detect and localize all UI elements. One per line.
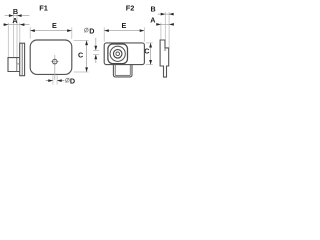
hole vertical centerline [54,55,56,80]
svg-text:E: E [122,21,127,30]
tab inner horizontal [115,74,130,76]
front view body F1 (rounded rect) [30,40,72,74]
svg-text:D: D [70,76,75,85]
dimension dia-D line (F2) [95,38,97,50]
A extension line left (F2) [160,23,162,40]
diameter symbol (F2) [84,28,88,32]
svg-text:F2: F2 [126,3,135,12]
side view plate (F1) [20,43,25,75]
svg-text:D: D [89,26,94,35]
B extension line left [13,13,15,58]
hole (F1) [53,59,58,64]
diameter symbol (F1) [66,78,70,82]
dimension dia-D arrows (F1) [46,80,53,82]
svg-text:E: E [52,21,57,30]
hole horizontal centerline [51,61,59,63]
hole dia extension line left [52,75,54,84]
middle circle [113,50,122,59]
svg-text:C: C [78,51,83,60]
B extension line right [16,13,18,58]
dimension B (left) [5,15,30,17]
inner circle [116,52,120,56]
A extension line right [19,23,21,43]
svg-text:A: A [12,16,17,25]
dimension C (F2) [150,43,152,65]
E extension line right (F1) [71,27,73,39]
E extension line left (F2) [103,27,105,42]
dimension C (F1) [86,41,88,73]
svg-text:C: C [144,46,149,55]
E extension line right (F2) [143,27,145,42]
C extension line bottom (F1) [74,71,89,73]
bottom tab outer (F2) [113,65,132,77]
C extension line top (F2) [146,42,153,44]
bezel rounded square [108,44,128,64]
A extension line left [7,23,9,58]
front view body F2 [104,43,144,65]
E extension line left (F1) [29,27,31,39]
box inner vertical [16,58,18,72]
dimension A (right) [156,23,174,25]
plate inner wall line [21,43,23,75]
C extension line top (F1) [74,40,89,42]
svg-text:B: B [151,5,156,14]
svg-text:F1: F1 [39,3,48,12]
tab inner vertical left [114,65,116,76]
shared extension line right (F2) [168,12,170,47]
box inner horizontal [17,63,20,65]
side view profile (F2) [160,40,169,77]
tab inner vertical right [129,65,131,76]
dimension A (left) [3,24,29,26]
dimension E (F2) [104,30,144,32]
svg-text:B: B [13,7,18,16]
dimension B (right) [158,13,174,15]
B extension line left (F2) [164,12,166,40]
dia-D extension line top (F2) [93,49,99,51]
dimension E (F1) [30,30,72,32]
hole dia extension line right [56,75,58,84]
svg-text:A: A [150,15,155,24]
profile inner step line [164,48,166,51]
outer circle [110,46,125,61]
dia-D extension line bottom (F2) [93,54,99,56]
side view box (F1) [8,58,20,72]
C extension line bottom (F2) [146,64,153,66]
